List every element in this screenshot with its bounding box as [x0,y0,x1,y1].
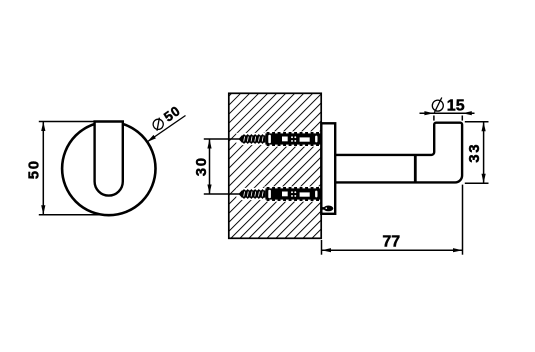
dimension 77: right arrow [453,248,463,252]
diameter 50 leader arrow [147,135,156,142]
svg-text:33: 33 [466,143,483,163]
dimension diameter15: left arrow [424,111,434,115]
arm end-cap joint line [414,155,417,183]
wall section (hatched) [229,93,321,238]
dimension 77: dimension line [322,249,463,251]
set screw stem on plate [321,207,324,210]
dimension 50: top extension line [39,121,96,123]
set screw oval on plate [324,206,334,212]
dimension 33: top arrow [482,122,486,132]
dimension diameter15: left extension tick [433,116,435,121]
dimension 30: bottom arrow [207,185,211,195]
dimension 33: dimension line [483,122,485,184]
svg-text:50: 50 [26,159,43,179]
screw with wall plug (lower) [239,187,322,201]
dimension 50: bottom arrow [41,205,45,215]
dimension diameter15: right arrow [462,111,472,115]
dimension 30: bottom extension line [204,193,240,195]
hook slot (U-shaped notch, front view) [95,122,123,196]
dimension 33: bottom extension line [465,182,489,184]
screw with wall plug (upper) [239,132,322,146]
dimension 77: right extension line [462,185,464,255]
dimension diameter15: diameter symbol [432,98,443,113]
dimension 50: dimension line [42,122,44,215]
dimension diameter15: dimension line [420,112,475,114]
dimension 33: top extension line [465,121,489,123]
hook body circle (front view) [62,122,155,215]
dimension diameter15: right extension tick [461,116,463,121]
wall mounting plate [321,123,335,214]
clearance hole around screw 1 [236,133,265,145]
svg-text:77: 77 [382,234,400,251]
dimension 30: top arrow [207,139,211,149]
dimension 50: top arrow [41,122,45,132]
dimension 33: bottom arrow [482,174,486,184]
dimension 30: top extension line [204,138,240,140]
hook arm and post outline (side view) [336,123,462,183]
dimension 30: dimension line [209,139,211,194]
clearance hole around screw 2 [236,188,265,200]
dimension 77: left extension line [321,240,323,255]
dimension 50: bottom extension line [39,214,101,216]
dimension 77: left arrow [322,248,332,252]
svg-text:30: 30 [193,156,210,176]
diameter 50 leader line [147,116,186,143]
svg-text:15: 15 [447,97,465,114]
diameter 50: diameter symbol [153,118,163,131]
